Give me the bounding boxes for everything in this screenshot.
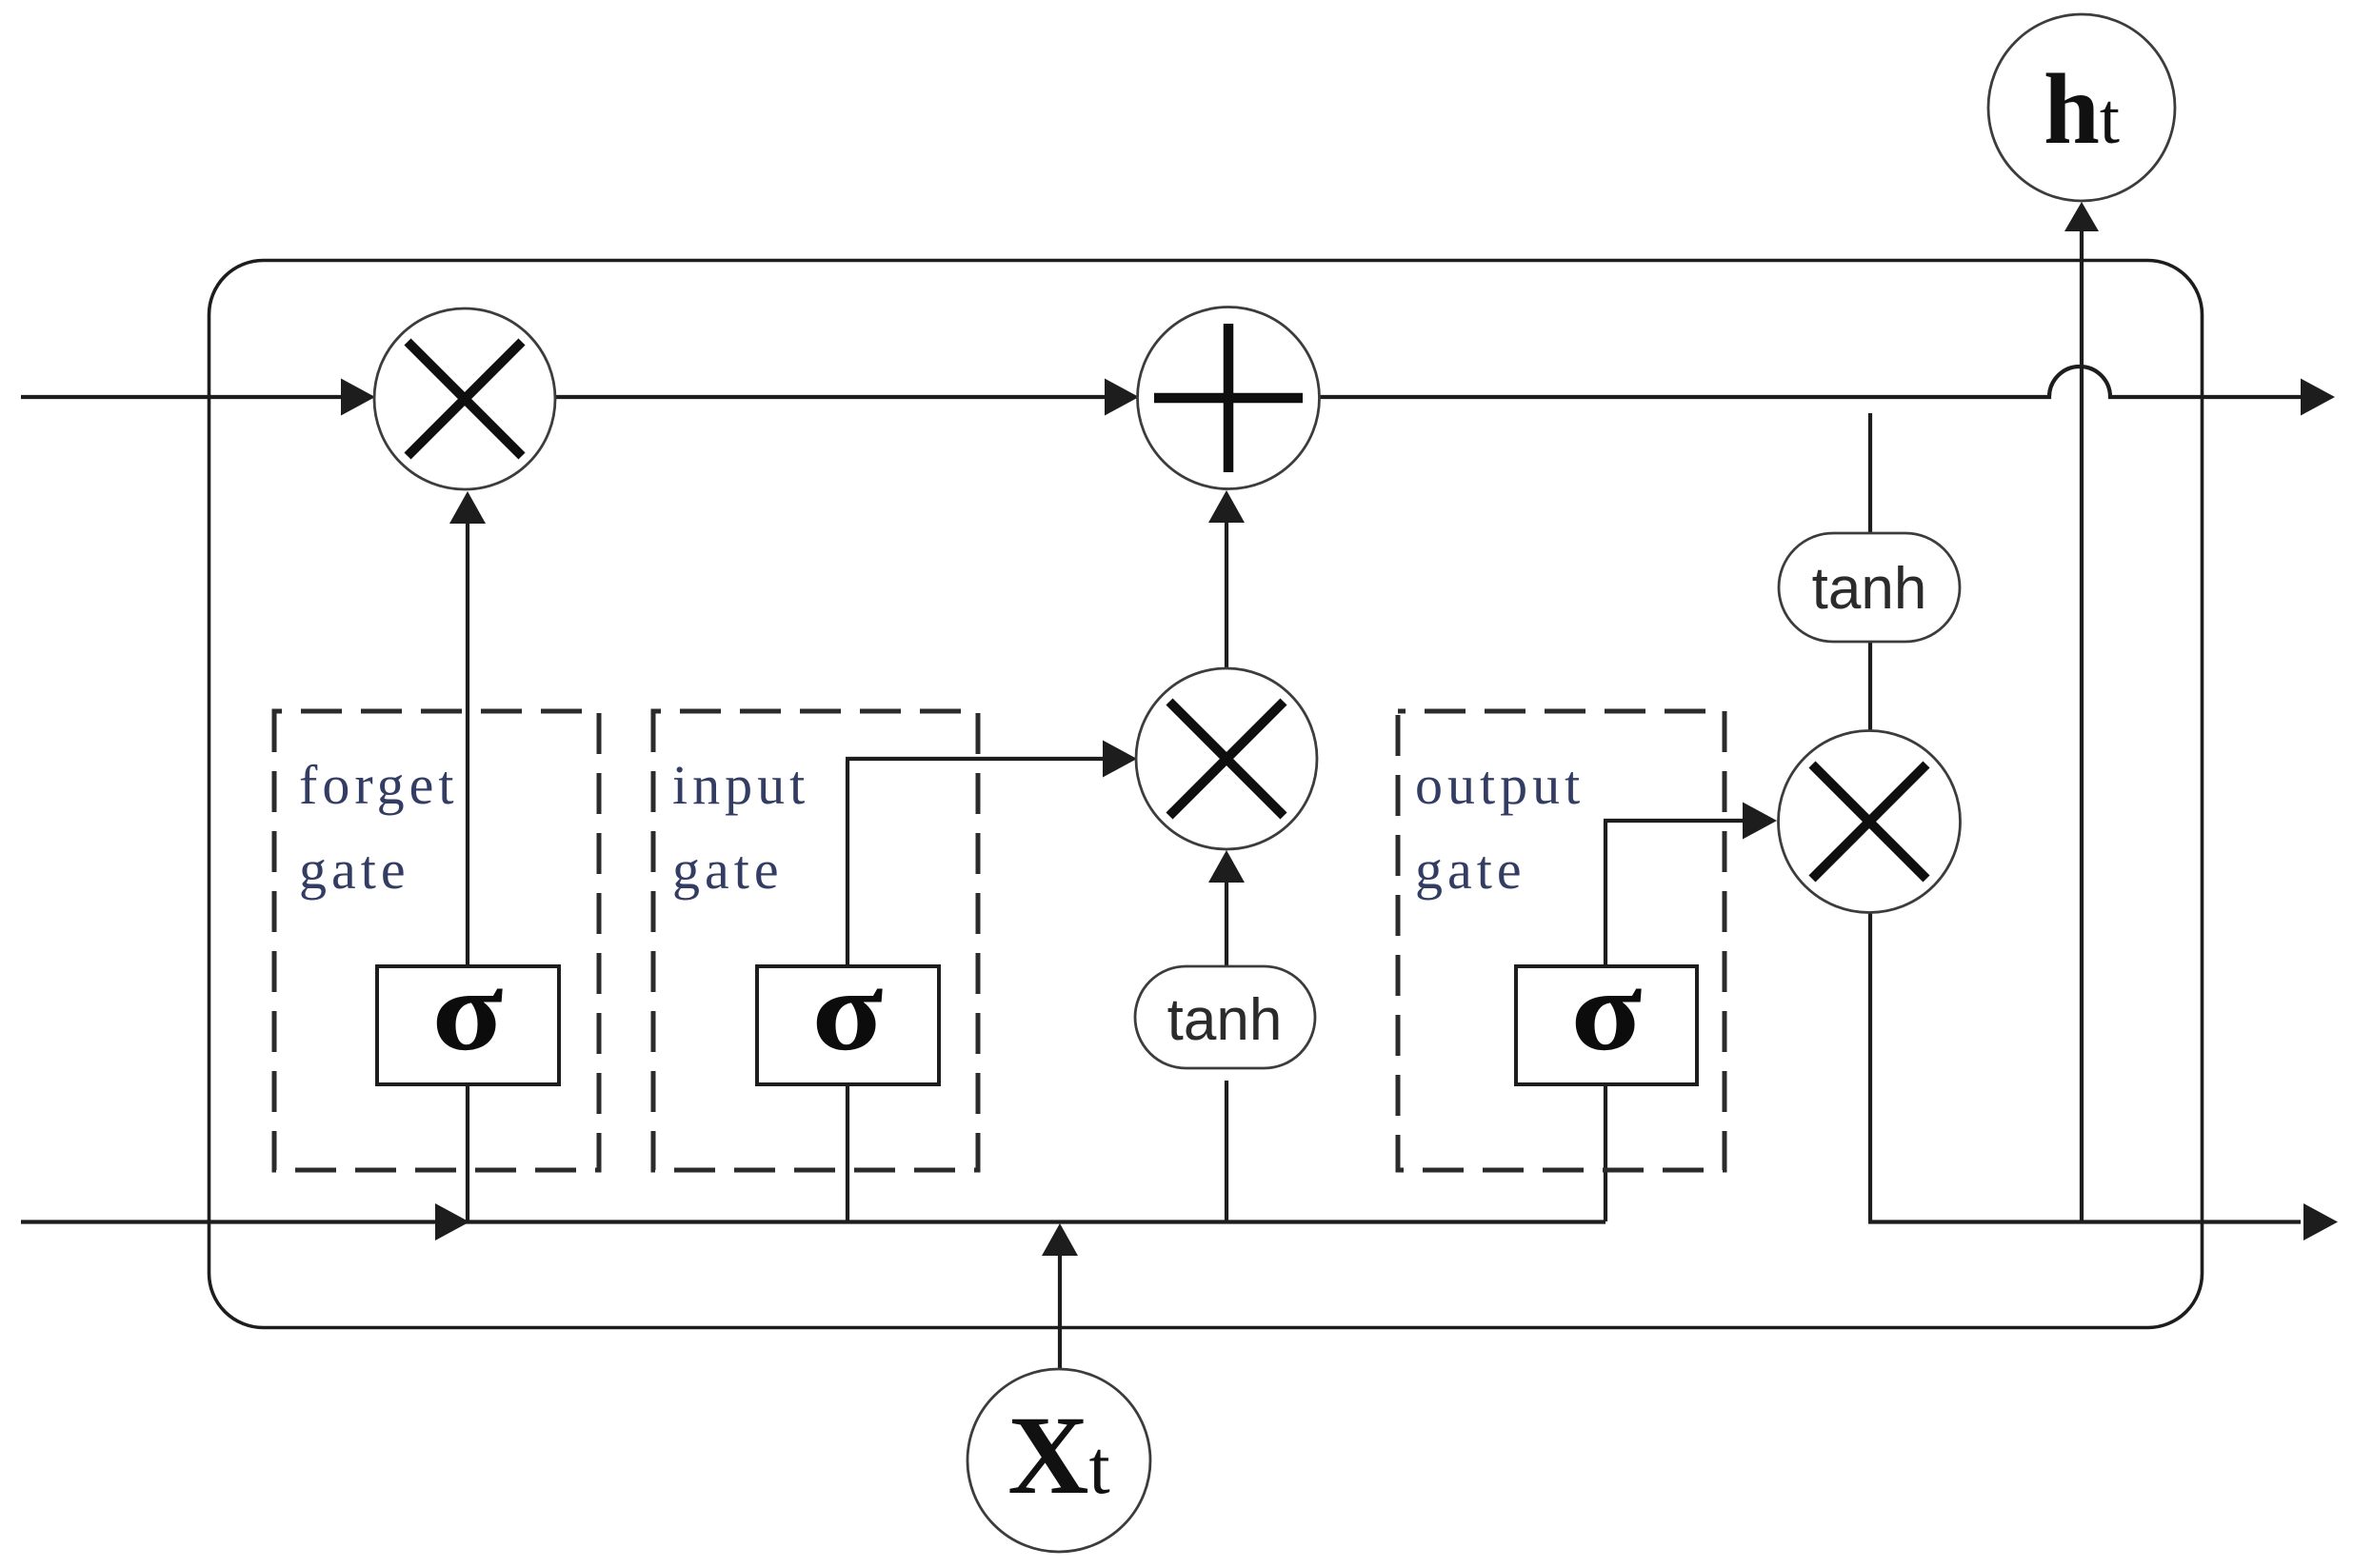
svg-text:σ: σ — [432, 946, 504, 1075]
svg-text:input: input — [672, 754, 809, 816]
svg-text:gate: gate — [672, 839, 784, 901]
svg-text:tanh: tanh — [1167, 987, 1283, 1053]
svg-text:σ: σ — [812, 946, 884, 1075]
svg-text:σ: σ — [1571, 946, 1643, 1075]
svg-text:gate: gate — [299, 839, 410, 901]
svg-text:tanh: tanh — [1812, 556, 1927, 622]
svg-text:output: output — [1415, 754, 1585, 816]
svg-text:gate: gate — [1415, 839, 1526, 901]
svg-text:forget: forget — [299, 754, 458, 816]
